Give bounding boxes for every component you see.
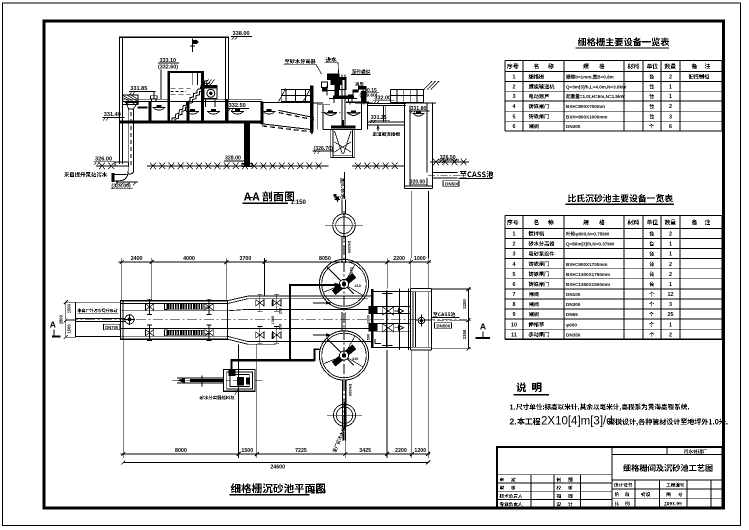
svg-text:410: 410 (355, 284, 361, 288)
screen chute hatch (204, 79, 209, 85)
manhole circle bottom (334, 404, 356, 426)
building right wall (225, 37, 227, 99)
svg-text:BXH=800X1000mm: BXH=800X1000mm (566, 114, 608, 119)
label to plant sewer (rot) (332, 427, 346, 453)
separator label (200, 396, 204, 400)
svg-text:叶轮φ600,N=0.75kW: 叶轮φ600,N=0.75kW (566, 231, 610, 238)
label to sand separator (285, 59, 290, 63)
outlet walls after valves (373, 291, 411, 293)
svg-text:7225: 7225 (295, 448, 307, 454)
grit tank left wall (317, 103, 319, 130)
table2 header (507, 220, 512, 226)
channel pier 2 (261, 102, 264, 124)
label connector plate (373, 132, 377, 136)
svg-text:DN65: DN65 (566, 312, 578, 317)
plan label to CASS (433, 312, 438, 316)
right platform railing (391, 89, 424, 91)
svg-text:250: 250 (279, 308, 283, 314)
screen discharge chute (191, 73, 193, 85)
inlet water level bar (138, 106, 148, 108)
svg-text:3: 3 (513, 252, 516, 258)
wall footing left (115, 162, 129, 166)
svg-text:BXH=1350X1500mm: BXH=1350X1500mm (566, 282, 610, 287)
inlet DN700 label (103, 324, 120, 329)
ground hatch middle (147, 165, 329, 167)
svg-text:2: 2 (669, 272, 672, 278)
ground hatch right (430, 161, 469, 163)
riser between circles (341, 312, 343, 331)
svg-text:1: 1 (513, 232, 516, 238)
svg-text:BXH=900X1700mm: BXH=900X1700mm (566, 262, 608, 267)
title block title cell bottom (612, 479, 723, 481)
sand pipe horizontal (231, 359, 314, 361)
svg-text:DN100: DN100 (566, 292, 581, 297)
inlet downpipe (127, 109, 129, 171)
building roof (119, 36, 229, 38)
table1 header (507, 63, 512, 69)
svg-text:2X10[4]m[3]/d: 2X10[4]m[3]/d (541, 415, 613, 427)
grit chamber circle upper (plan) (319, 259, 368, 308)
label inflow (326, 57, 331, 62)
svg-text:DN350: DN350 (566, 332, 581, 337)
plan centerline (68, 319, 467, 321)
motor small parts (322, 88, 327, 92)
ground hatch left (96, 165, 121, 167)
sand pipe branch to lower circle (314, 349, 316, 361)
fine screen lower (plan) (167, 330, 204, 336)
title block plant name (684, 449, 688, 453)
svg-text:1: 1 (669, 252, 672, 258)
svg-text:2200: 2200 (395, 448, 407, 454)
svg-text:5: 5 (513, 272, 516, 278)
grit hopper (330, 130, 332, 158)
svg-text:410: 410 (352, 357, 358, 361)
well water dish (413, 113, 425, 115)
inlet sump hatch (123, 95, 138, 104)
svg-text:2800: 2800 (58, 314, 63, 324)
svg-text:1: 1 (669, 322, 672, 328)
outlet well top rim (400, 102, 436, 104)
table1 title (578, 38, 586, 47)
svg-text:1:150: 1:150 (311, 489, 327, 495)
svg-text:24600: 24600 (270, 464, 285, 470)
right dim ext (432, 288, 471, 290)
pier below floor (244, 124, 250, 166)
hopper v-cone (335, 131, 343, 154)
bottom dim extension lines (122, 339, 124, 458)
grit shaft (341, 74, 343, 126)
inlet gate symbol (125, 315, 134, 324)
left dim ext (66, 301, 76, 303)
outlet well walls (404, 103, 406, 188)
lower walkway right (367, 121, 404, 123)
svg-text:2: 2 (513, 242, 516, 248)
sand pipe down arrow (335, 197, 339, 203)
pipe end flange (111, 173, 114, 182)
svg-text:6: 6 (513, 124, 516, 130)
lower riser pipe (342, 380, 344, 427)
svg-text:2: 2 (669, 104, 672, 110)
sand pipe vertical (289, 284, 291, 360)
inlet pipe source text (64, 172, 69, 177)
svg-text:8050: 8050 (319, 256, 331, 262)
svg-text:12: 12 (668, 292, 674, 298)
svg-text:1.: 1. (510, 404, 516, 411)
outlet rot labels (366, 315, 370, 323)
gate pair at x=209.0 (205, 304, 213, 310)
svg-text:2350: 2350 (462, 329, 467, 339)
svg-text:8000: 8000 (175, 448, 187, 454)
svg-text:600: 600 (271, 333, 275, 339)
svg-text:DN500: DN500 (437, 323, 451, 328)
inclined screen belt (172, 81, 208, 122)
svg-text:2: 2 (669, 232, 672, 238)
grit chamber dark column (310, 86, 314, 132)
classifier legs (349, 102, 351, 104)
title block drawing title (623, 464, 631, 472)
svg-text:4000: 4000 (183, 256, 195, 262)
svg-text:A: A (50, 319, 56, 329)
svg-text:1500: 1500 (66, 303, 71, 313)
water dish bay1 (153, 107, 166, 109)
svg-text:2200: 2200 (462, 299, 467, 309)
upper riser pipe (341, 199, 343, 214)
svg-text:1: 1 (513, 75, 516, 81)
plan cass pipe line (425, 320, 453, 322)
channel width rot labels (271, 300, 275, 306)
lower riser label (348, 384, 353, 397)
svg-text:Q=80m[3]/h,N=0.37kW: Q=80m[3]/h,N=0.37kW (566, 242, 615, 247)
svg-text:DN700: DN700 (105, 325, 119, 330)
outlet flange (418, 317, 424, 323)
svg-text:9: 9 (513, 312, 516, 318)
svg-text:1: 1 (669, 84, 672, 90)
top L bracket (335, 199, 340, 201)
inlet bellmouth (126, 103, 138, 109)
dark valve lower (368, 323, 377, 331)
inlet pipe plan (76, 317, 125, 319)
plan bottom dim line (120, 453, 430, 455)
screen drive motor (204, 85, 217, 98)
plan vertical centerline (343, 211, 345, 440)
svg-text:1: 1 (669, 282, 672, 288)
post between slabs (382, 105, 384, 122)
svg-text:2: 2 (513, 84, 516, 90)
upper slab right (367, 102, 406, 104)
sand pipe to upper circle (290, 284, 339, 286)
svg-text:11: 11 (511, 332, 517, 338)
screen water dish (186, 111, 199, 113)
svg-text:DN300: DN300 (566, 302, 581, 307)
svg-text:3425: 3425 (359, 448, 371, 454)
fine screen upper (plan) (167, 304, 204, 310)
svg-text:1200: 1200 (414, 448, 426, 454)
plan total dim line (123, 461, 428, 463)
inlet bay pier (149, 102, 152, 121)
outlet pipe lower (369, 323, 411, 325)
title block outer (497, 447, 723, 508)
lower pipe tail (342, 427, 344, 442)
svg-text:4: 4 (513, 104, 516, 110)
svg-text:3700: 3700 (240, 256, 252, 262)
roof vent hook (192, 39, 194, 53)
main channel inner lines (120, 303, 227, 305)
outlet well bottom (405, 185, 433, 187)
svg-text:2: 2 (669, 262, 672, 268)
svg-text:φ600: φ600 (566, 322, 577, 327)
building left wall (119, 37, 121, 164)
gate pair at x=149.6 (145, 304, 153, 310)
plan top dim line (119, 261, 431, 263)
grit tank water (321, 111, 341, 113)
separator internals (237, 377, 244, 386)
svg-text:2400: 2400 (131, 256, 143, 262)
sloped channel invert (261, 124, 313, 130)
small L bracket outlet (374, 339, 376, 344)
table2 grid (505, 215, 722, 217)
title block right rows (612, 488, 723, 490)
channel end walls (398, 289, 400, 350)
svg-text:4: 4 (513, 262, 516, 268)
sloped channel soffit (279, 110, 314, 117)
svg-text:起重量=1.0t,H=6m,N=1.5kW: 起重量=1.0t,H=6m,N=1.5kW (565, 93, 626, 100)
main channel outer walls (120, 301, 227, 340)
svg-text:1: 1 (669, 242, 672, 248)
svg-text:DN500: DN500 (445, 181, 460, 186)
svg-text:DN300: DN300 (566, 124, 581, 129)
title block right texts (614, 483, 618, 487)
svg-text:1300: 1300 (366, 315, 370, 323)
riser label DN300 (347, 241, 352, 254)
outlet box (409, 289, 411, 350)
svg-text:3: 3 (669, 302, 672, 308)
svg-text:1:150: 1:150 (291, 200, 307, 206)
svg-text:栅隙b=1mm,宽B=0.8m: 栅隙b=1mm,宽B=0.8m (566, 74, 614, 81)
pipe elbow (114, 171, 128, 181)
water dish bay3 (231, 111, 244, 113)
table1 grid (505, 60, 722, 62)
sand storage leader line (344, 172, 346, 199)
flow arrows (313, 302, 331, 304)
label to CASS (460, 171, 467, 177)
svg-text:2200: 2200 (393, 256, 405, 262)
grit drive platform (333, 96, 354, 99)
grit impeller (331, 126, 355, 129)
svg-text:5: 5 (513, 114, 516, 120)
wide gate pair x=276.7 (273, 300, 281, 306)
svg-text:1500: 1500 (66, 324, 71, 334)
ground hatch mid-right (352, 165, 404, 167)
svg-text:25: 25 (668, 312, 674, 318)
title block top strip (612, 454, 723, 456)
title block vertical divider (611, 447, 613, 508)
grit drive motor (327, 74, 340, 81)
label to sand storage (rotated) (341, 178, 346, 198)
svg-text:BXH=800X700mm: BXH=800X700mm (566, 104, 605, 109)
svg-text:2: 2 (669, 332, 672, 338)
plan label DN500 (435, 323, 452, 329)
title block left rows (497, 474, 612, 476)
elbow support (116, 181, 138, 183)
svg-text:DN300: DN300 (347, 241, 352, 254)
svg-text:Q=3m[3]/h,L=4.0m,N=3.0kW: Q=3m[3]/h,L=4.0m,N=3.0kW (566, 84, 627, 89)
channel floor slab (119, 121, 261, 124)
svg-text:DN300: DN300 (348, 384, 353, 397)
svg-text:BXH=1300X1750mm: BXH=1300X1750mm (566, 272, 610, 277)
valve stem line (386, 291, 388, 349)
sand classifier steps (349, 87, 367, 103)
fine screen frame (167, 71, 170, 121)
svg-text:1000: 1000 (414, 256, 426, 262)
section title A-A (244, 192, 251, 200)
dark valve wall (371, 289, 374, 348)
grit chamber circle lower (plan) (319, 331, 368, 380)
svg-text:3: 3 (669, 114, 672, 120)
wide gate pair x=259.8 (256, 300, 264, 306)
svg-text:1500: 1500 (241, 448, 253, 454)
channel pier 1 (187, 102, 190, 121)
right dim labels (462, 299, 467, 309)
hollow gate lower (383, 324, 394, 332)
hollow gate upper (383, 307, 394, 315)
svg-text:10: 10 (511, 322, 517, 328)
channel taper (227, 296, 248, 301)
grit tank right wall (361, 103, 363, 130)
right dim line (467, 289, 469, 349)
separator feed pipe (177, 377, 223, 379)
grit tank bottom (323, 129, 362, 131)
manhole circle top (333, 214, 356, 237)
svg-text:600: 600 (271, 300, 275, 306)
left dim labels (66, 303, 71, 313)
channel top slab (122, 98, 167, 100)
svg-text:DN150: DN150 (350, 267, 354, 278)
wide channel lines (248, 295, 372, 297)
title block left texts (500, 477, 504, 481)
svg-text:1300: 1300 (271, 316, 275, 324)
label sand channel (352, 70, 356, 74)
svg-text:7: 7 (513, 292, 516, 298)
left platform railing (281, 89, 312, 91)
svg-text:2: 2 (669, 75, 672, 81)
separator box (224, 370, 255, 392)
stair strokes (424, 81, 432, 90)
top dim extension lines (121, 258, 123, 301)
svg-text:500: 500 (366, 334, 370, 340)
svg-text:6: 6 (669, 124, 672, 130)
leader connector (377, 125, 379, 131)
notes title (516, 382, 526, 392)
svg-text:A: A (480, 322, 486, 332)
svg-text:1: 1 (669, 94, 672, 100)
water dish bay2 (207, 111, 220, 113)
table2 title (568, 194, 576, 202)
svg-text:2.: 2. (510, 416, 517, 426)
sand pipe to separator (230, 359, 232, 372)
screen water dashes (170, 87, 190, 89)
left inlet box (76, 302, 121, 336)
svg-text:3: 3 (513, 94, 516, 100)
label DN500 (443, 181, 459, 187)
svg-text:8: 8 (513, 302, 516, 308)
outlet pipe upper (369, 306, 411, 308)
svg-text:6: 6 (513, 282, 516, 288)
svg-text:250: 250 (279, 324, 283, 330)
label hydraulic (355, 82, 359, 86)
dark valve upper (368, 306, 377, 313)
inlet source text (78, 309, 82, 313)
plan title (231, 483, 241, 493)
small post on slab (151, 96, 158, 99)
cass pipe (432, 171, 457, 173)
left dim lines (65, 302, 67, 337)
